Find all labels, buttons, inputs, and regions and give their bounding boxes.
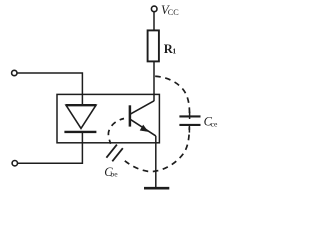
svg-text:1: 1 bbox=[172, 47, 176, 56]
svg-text:ce: ce bbox=[211, 120, 218, 129]
svg-text:CC: CC bbox=[168, 8, 179, 17]
svg-text:be: be bbox=[110, 170, 118, 179]
